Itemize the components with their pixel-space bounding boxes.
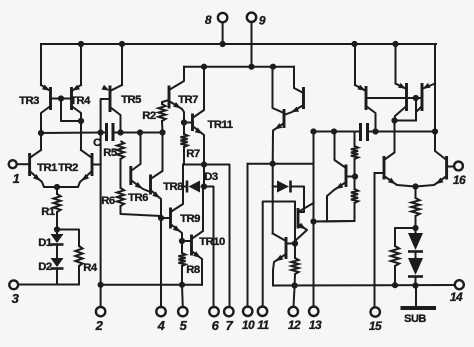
wire base-collector tie TR4: [61, 99, 81, 122]
pin 12 terminal: [289, 307, 298, 316]
wire node down to Q-h collector: [272, 164, 274, 234]
pin 11 terminal: [258, 307, 267, 316]
TR8 emitter arrow: [152, 191, 160, 198]
wire Q-e base to pin 16: [447, 166, 454, 168]
svg-text:D3: D3: [204, 171, 218, 183]
junction Q-f collector: [331, 128, 337, 134]
junction TR6 collector: [137, 129, 143, 135]
resistor R4: [75, 246, 82, 266]
wire collector tie y120: [395, 120, 417, 122]
junction C2 right / Q-c collector: [372, 128, 378, 134]
wire to pin 6: [204, 187, 214, 308]
wire second rail (pin 9 net): [184, 66, 294, 68]
junction TR3/TR1 collectors: [38, 130, 44, 136]
resistor lower (R chain): [351, 189, 358, 203]
Q-f emitter arrow: [336, 183, 344, 189]
svg-text:R6: R6: [101, 195, 115, 207]
wire feedback line y285: [101, 284, 202, 286]
junction R1 bottom: [54, 226, 60, 232]
transistor Q-pnp-a (lower): [283, 109, 286, 128]
wire TR2 base node down to pin2: [100, 133, 102, 308]
svg-text:TR5: TR5: [121, 94, 141, 106]
svg-text:15: 15: [369, 319, 382, 333]
resistor bias left: [391, 246, 399, 266]
wire to SUB: [415, 286, 417, 308]
resistor output emitter: [411, 198, 419, 216]
junction on bottom rail: [392, 282, 398, 288]
TR6 emitter arrow: [135, 182, 143, 189]
diode D5: [415, 228, 417, 233]
svg-text:13: 13: [309, 318, 322, 332]
TR5 emitter arrow: [102, 85, 110, 91]
junction rail2 TR11 collector: [201, 64, 207, 70]
svg-text:TR2: TR2: [58, 162, 78, 174]
wire base tie A-B: [407, 97, 423, 99]
capacitor C2: [359, 123, 362, 141]
svg-text:11: 11: [257, 318, 269, 332]
wire: [415, 187, 417, 199]
svg-text:R5: R5: [103, 147, 117, 159]
junction TR7 emitter/TR11 base/R7: [181, 119, 187, 125]
transistor Q-h: [285, 237, 288, 259]
wire to left resistor: [395, 228, 416, 246]
transistor Q-A: [405, 83, 408, 111]
wire D4 cathode to Q-g base: [292, 187, 304, 213]
junction cap-line/pin13: [310, 128, 316, 134]
wire net-A right segment: [121, 132, 163, 134]
wire TR2 collector riser: [80, 121, 82, 150]
wire pin 3 line: [18, 284, 79, 286]
svg-text:D2: D2: [38, 261, 52, 273]
svg-text:R4: R4: [83, 262, 98, 274]
junction Q-f base tap: [352, 173, 358, 179]
transistor TR1: [28, 153, 31, 176]
junction emitter node: [270, 161, 276, 167]
junction Q-h base node: [292, 240, 298, 246]
TR2 emitter arrow: [82, 174, 90, 181]
svg-text:D1: D1: [38, 237, 52, 249]
svg-text:R2: R2: [142, 110, 156, 122]
pin 5 terminal: [178, 307, 187, 316]
resistor R7: [180, 134, 187, 147]
TR10 emitter arrow: [193, 251, 201, 258]
junction output emitters: [412, 183, 418, 189]
junction TR10 base node: [179, 238, 185, 244]
resistor R8: [178, 253, 185, 266]
pin 14 terminal: [455, 280, 464, 289]
wire bottom bias rail to pin 14: [273, 284, 455, 287]
Q-d emitter arrow: [388, 178, 396, 185]
pin 15 terminal: [371, 307, 380, 316]
resistor R6: [117, 188, 124, 206]
svg-text:TR3: TR3: [19, 95, 39, 107]
Q-g emitter arrow: [298, 223, 306, 230]
wire cap-line right: [376, 131, 436, 133]
pin 1 terminal: [9, 160, 17, 168]
svg-text:TR11: TR11: [207, 119, 232, 131]
Q-B emitter arrow: [423, 83, 431, 89]
wire cap line to R chain: [354, 132, 356, 147]
transistor TR8: [149, 175, 152, 195]
wire rail right corner down: [434, 44, 436, 84]
TR4 emitter arrow: [72, 85, 80, 91]
wire R7 bottom: [184, 147, 204, 165]
svg-text:TR10: TR10: [199, 236, 225, 248]
junction on pin2 line: [98, 282, 104, 288]
wire pin1 to TR1 base: [17, 163, 30, 165]
junction pin9-rail2: [248, 64, 254, 70]
wire emitter node to R1: [56, 187, 58, 194]
diode D3: [183, 186, 186, 188]
wire TR9 base: [161, 217, 171, 219]
Q-b emitter arrow: [291, 107, 299, 113]
junction D3 anode node: [201, 183, 207, 189]
svg-text:TR6: TR6: [128, 192, 148, 204]
junction R5 top: [117, 129, 123, 135]
svg-text:R1: R1: [41, 206, 55, 218]
junction Q-c emitter rail: [351, 41, 357, 47]
wire Q-h base: [286, 243, 295, 245]
wire R chain bottom: [314, 203, 355, 222]
wire R6 to TR9 base node: [121, 206, 162, 218]
wire D2 to pin3 line: [56, 269, 58, 285]
Q-A emitter arrow: [398, 83, 406, 89]
junction R8 bottom / pin 5: [179, 282, 185, 288]
wire D6 to bottom rail: [415, 277, 417, 286]
junction SUB node: [412, 282, 418, 288]
wire TR2 base: [92, 164, 101, 166]
junction TR1/TR2 emitters: [54, 184, 60, 190]
svg-text:C: C: [93, 137, 101, 149]
wire R5-R6: [120, 159, 122, 188]
wire cap-line left: [314, 131, 358, 133]
TR7 emitter arrow: [173, 102, 181, 108]
svg-text:TR1: TR1: [37, 162, 57, 174]
wire riser to collector: [434, 132, 436, 149]
wire pin 11 to base node: [263, 202, 295, 307]
junction TR4 collector node: [78, 118, 84, 124]
wire TR3-TR4 base tie: [51, 98, 72, 100]
pin 7 terminal: [224, 307, 233, 316]
resistor (bias) on pin12 node: [291, 258, 298, 274]
Q-c emitter arrow: [358, 85, 366, 91]
diode D4: [273, 186, 277, 188]
wire D3 anode riser: [203, 165, 205, 187]
junction base tie: [413, 95, 419, 101]
transistor Q-d (output left): [383, 156, 386, 180]
wire base tie Q-c/Q-A: [366, 97, 407, 99]
pin 8 terminal: [218, 13, 227, 22]
junction R2 bottom: [159, 129, 165, 135]
svg-text:2: 2: [95, 318, 104, 333]
pin 13 terminal: [309, 307, 318, 316]
pin 9 terminal: [247, 13, 256, 22]
wire y221 line: [314, 220, 355, 223]
wire net-A left segment: [41, 132, 101, 135]
wire base from rail2 dot: [273, 67, 285, 113]
junction R bottom / pin 12: [292, 282, 298, 288]
transistor TR11: [191, 114, 194, 132]
svg-text:14: 14: [450, 290, 463, 304]
transistor Q-g: [297, 208, 300, 229]
wire D1-D2: [56, 245, 58, 259]
transistor TR6: [129, 166, 132, 185]
svg-text:R8: R8: [186, 264, 200, 276]
resistor R2: [158, 104, 165, 121]
transistor TR2: [91, 153, 94, 176]
pin 4 terminal: [156, 307, 165, 316]
wire top supply rail: [41, 43, 436, 45]
Q-a emitter arrow: [275, 123, 283, 130]
junction y221 line: [310, 218, 316, 224]
Q-h emitter arrow: [275, 255, 283, 261]
junction cap-line output riser: [432, 128, 438, 134]
wire y164 node line: [248, 163, 314, 165]
pin 10 terminal: [243, 307, 252, 316]
junction TR9 base node: [158, 215, 164, 221]
transistor TR9: [169, 208, 172, 229]
transistor Q-f: [345, 165, 348, 188]
transistor TR5: [109, 86, 112, 113]
svg-text:SUB: SUB: [404, 313, 426, 325]
resistor upper (R chain): [351, 146, 358, 159]
wire to pin 5: [181, 285, 184, 308]
transistor TR10: [190, 235, 193, 256]
wire pin8 drop: [222, 23, 224, 45]
transistor Q-pnp-b (upper): [302, 87, 305, 109]
svg-text:12: 12: [288, 318, 301, 332]
TR1 emitter arrow: [33, 174, 41, 181]
pin 2 terminal: [96, 307, 105, 316]
TR9 emitter arrow: [173, 225, 181, 232]
pin 6 terminal: [209, 307, 218, 316]
TR3 emitter arrow: [42, 85, 50, 91]
junction Q-A collector node: [391, 117, 397, 123]
wire to R4: [57, 230, 79, 247]
svg-text:TR8: TR8: [163, 181, 183, 193]
wire to pin 12: [294, 286, 295, 308]
transistor Q-e (output right): [445, 156, 448, 180]
diode D6: [415, 252, 417, 259]
Q-e emitter arrow: [436, 178, 444, 185]
wire to pin 10: [247, 164, 249, 307]
transistor Q-c: [365, 86, 368, 110]
junction pin8-rail: [220, 41, 226, 47]
svg-text:R7: R7: [186, 148, 200, 160]
svg-text:1: 1: [13, 171, 20, 186]
transistor TR3: [49, 87, 52, 110]
junction rail2 node: [270, 64, 276, 70]
junction TR11 emitter node: [201, 161, 207, 167]
pin 16 terminal: [454, 162, 463, 171]
svg-text:8: 8: [205, 13, 212, 27]
wire pin9 drop: [251, 22, 253, 67]
diode D2: [51, 258, 64, 267]
svg-text:16: 16: [453, 173, 466, 187]
svg-text:TR9: TR9: [180, 213, 200, 225]
transistor TR7: [168, 86, 171, 109]
junction TR4 emitter-rail: [78, 41, 84, 47]
wire down to Q-d collector: [394, 121, 396, 151]
svg-text:9: 9: [259, 14, 266, 28]
transistor Q-B: [421, 83, 424, 111]
svg-text:10: 10: [242, 318, 255, 332]
wire TR10 base: [182, 240, 192, 242]
wire TR7 base to R2: [162, 100, 169, 104]
wire TR5 base to C node: [101, 99, 110, 133]
junction C left node: [98, 129, 104, 135]
wire Q-f base: [346, 176, 355, 178]
wire Q-d base: [375, 172, 385, 174]
pin 3 terminal: [9, 280, 18, 289]
wire pin 13 riser: [313, 132, 315, 307]
wire to pin 7: [204, 165, 230, 308]
svg-text:TR4: TR4: [70, 95, 91, 107]
diode D1: [56, 230, 58, 235]
capacitor C: [105, 123, 108, 141]
wire base to pin 15: [374, 173, 376, 308]
resistor R1: [53, 194, 60, 212]
transistor TR4: [70, 87, 73, 110]
svg-text:TR7: TR7: [178, 94, 198, 106]
junction TR5 emitter-rail: [119, 41, 125, 47]
wire diode-connect B: [415, 98, 417, 121]
TR11 emitter arrow: [195, 128, 203, 135]
wire to pin 4: [160, 218, 162, 307]
junction Q-A emitter rail: [392, 41, 398, 47]
wire TR11 base: [184, 122, 193, 124]
junction base tie: [58, 95, 64, 101]
ground SUB: [401, 306, 437, 310]
wire through B emitter: [434, 84, 436, 132]
junction bias node: [412, 225, 418, 231]
svg-text:4: 4: [157, 318, 166, 333]
resistor R5: [117, 141, 124, 159]
